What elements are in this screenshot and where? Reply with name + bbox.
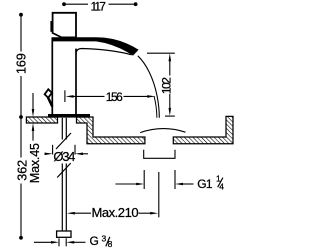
svg-text:3: 3 — [102, 233, 107, 243]
svg-text:G1: G1 — [197, 177, 213, 191]
svg-text:Max.210: Max.210 — [91, 205, 138, 220]
svg-text:Ø34: Ø34 — [53, 149, 75, 164]
svg-text:102: 102 — [160, 77, 174, 94]
svg-text:4: 4 — [219, 181, 224, 191]
svg-text:G: G — [90, 234, 99, 248]
svg-text:8: 8 — [108, 239, 113, 249]
svg-text:117: 117 — [91, 0, 107, 13]
svg-text:169: 169 — [14, 53, 28, 74]
svg-text:156: 156 — [106, 90, 123, 104]
svg-text:Max.45: Max.45 — [28, 143, 42, 183]
